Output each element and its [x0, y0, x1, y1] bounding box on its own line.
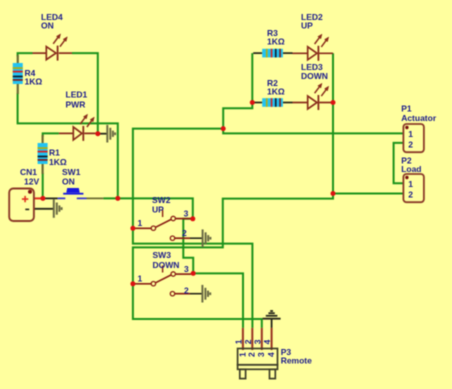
- wire: plus node to SW1 left contact: [43, 197, 58, 199]
- svg-text:1KΩ: 1KΩ: [49, 157, 67, 167]
- wire: R2 R3 left branch to rail: [223, 53, 252, 129]
- wire: junction to P2 pin 2: [333, 193, 403, 195]
- switch SW2: [134, 210, 203, 240]
- svg-text:2: 2: [182, 228, 187, 238]
- resistor R2: [254, 98, 292, 107]
- wire: P1 pin 2 to P2 pin 1: [394, 143, 404, 183]
- svg-text:SW3: SW3: [153, 250, 172, 260]
- svg-text:3: 3: [184, 264, 189, 274]
- svg-text:R1: R1: [49, 148, 60, 158]
- svg-text:1: 1: [408, 179, 413, 189]
- svg-text:3: 3: [252, 339, 262, 344]
- svg-text:2: 2: [243, 339, 253, 344]
- connector CN1: [9, 189, 34, 222]
- svg-text:2: 2: [184, 285, 189, 295]
- svg-text:12V: 12V: [24, 176, 39, 186]
- svg-text:3: 3: [256, 352, 266, 357]
- LED LED3: [293, 83, 332, 110]
- svg-text:UP: UP: [152, 205, 164, 215]
- svg-text:Remote: Remote: [281, 356, 312, 366]
- ground (LED1 cathode): [107, 125, 115, 143]
- svg-text:P1: P1: [401, 103, 412, 113]
- wire: SW1 output to SW2 pin 3: [103, 198, 192, 218]
- wire: R4 bottom to SW1 output rail: [18, 93, 118, 198]
- wire: LED4 right to ground junction: [72, 53, 98, 134]
- svg-text:1: 1: [408, 129, 413, 139]
- resistor R3: [253, 49, 292, 58]
- svg-text:Actuator: Actuator: [401, 113, 437, 123]
- wire: P1 pin 1 rail to SW2 pin 1 to P3 pin 2: [133, 129, 404, 328]
- svg-text:LED1: LED1: [66, 90, 88, 100]
- wire: SW1 right contact lead: [87, 197, 104, 199]
- svg-text:4: 4: [266, 352, 276, 357]
- node: junction dots: [40, 100, 335, 286]
- svg-text:2: 2: [408, 189, 413, 199]
- wire: LED1 cathode to ground stub: [98, 133, 108, 135]
- ground (CN1 minus): [54, 199, 62, 217]
- LED LED2: [293, 34, 334, 61]
- svg-text:UP: UP: [301, 21, 313, 31]
- ground (SW3 pin 2): [202, 285, 210, 303]
- resistor R1: [38, 135, 48, 174]
- connector P1: [403, 124, 424, 152]
- svg-text:ON: ON: [62, 176, 75, 186]
- svg-text:1KΩ: 1KΩ: [267, 37, 285, 47]
- LED LED1: [59, 114, 96, 141]
- svg-text:1KΩ: 1KΩ: [25, 77, 43, 87]
- svg-text:ON: ON: [41, 21, 54, 31]
- svg-text:DOWN: DOWN: [301, 71, 328, 81]
- wire: LED4 left corner: [18, 53, 33, 56]
- connector P3: [234, 328, 278, 379]
- svg-text:PWR: PWR: [66, 100, 86, 110]
- svg-text:1: 1: [138, 218, 143, 228]
- resistor R4: [13, 55, 23, 94]
- svg-text:3: 3: [184, 209, 189, 219]
- svg-text:1: 1: [138, 274, 143, 284]
- ground (P3 pin 4): [263, 311, 281, 328]
- svg-text:SW2: SW2: [152, 195, 171, 205]
- svg-text:1KΩ: 1KΩ: [267, 87, 285, 97]
- svg-text:4: 4: [262, 339, 272, 344]
- svg-text:2: 2: [408, 139, 413, 149]
- svg-text:2: 2: [247, 352, 257, 357]
- wire: SW3 pin 3 to P3 pin 1: [193, 273, 243, 328]
- wire: SW2 pin 3 jog down to SW3 pin 3: [183, 219, 193, 274]
- node: battery plus red lead: [34, 197, 43, 199]
- wire: LED cathode column to P2 pin 2 and SW3 pin 1 to P3 pin 3: [133, 53, 333, 328]
- wire: R1 top to LED1 anode: [43, 133, 59, 136]
- connector P2: [403, 174, 424, 202]
- ground (SW2 pin 2): [203, 229, 211, 247]
- svg-text:DOWN: DOWN: [153, 260, 180, 270]
- wire: battery minus lead to ground: [34, 208, 54, 210]
- svg-text:Load: Load: [401, 164, 421, 174]
- LED LED4: [33, 34, 73, 61]
- switch SW3: [134, 266, 202, 296]
- wire: R1 bottom to battery plus node: [42, 173, 44, 198]
- switch SW1: [58, 188, 87, 198]
